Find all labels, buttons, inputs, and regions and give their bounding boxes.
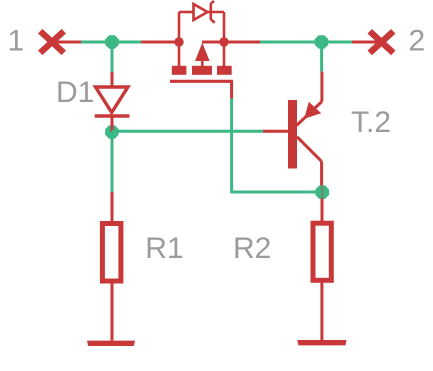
pin stub MOSFET left (drain) — [141, 41, 179, 44]
wire MOSFET to junction B — [260, 41, 352, 44]
junction node B (top right) — [315, 35, 329, 49]
diode D1 pin top — [111, 72, 114, 86]
diode D1 pin bottom — [111, 116, 114, 132]
junction node D red-through stripe — [321, 186, 324, 199]
svg-text:1: 1 — [8, 24, 25, 57]
svg-text:T.2: T.2 — [351, 106, 391, 139]
svg-text:R2: R2 — [233, 232, 271, 265]
wire base net horizontal — [112, 130, 263, 133]
transistor T.2 base pin — [263, 130, 288, 133]
transistor T.2 emitter diagonal — [297, 102, 322, 126]
MOSFET right leg to channel pad — [223, 42, 226, 67]
wire gate across to junction — [230, 191, 316, 194]
MOSFET bulk connection wire — [202, 41, 224, 44]
ground symbol right — [297, 340, 346, 345]
transistor T.2 emitter arrow — [304, 102, 321, 119]
resistor R2 body — [313, 223, 331, 280]
svg-text:2: 2 — [409, 25, 426, 58]
MOSFET right vertical down from body diode — [223, 12, 226, 42]
junction node C (D1 bottom) — [105, 125, 119, 139]
zener bottom hook — [211, 19, 215, 23]
MOSFET source dot — [219, 37, 228, 46]
MOSFET bulk arrow — [195, 43, 210, 61]
resistor R2 pin top — [321, 199, 324, 221]
MOSFET gate bar — [170, 80, 233, 83]
wire node1 to junction — [81, 41, 141, 44]
MOSFET left leg to channel pad — [178, 42, 181, 67]
resistor R1 pin top — [111, 192, 114, 221]
unconnected pin X at node 1 — [40, 31, 64, 53]
ground symbol left — [87, 341, 135, 346]
transistor T.2 emitter pin red — [320, 72, 323, 102]
body diode axis right segment — [207, 11, 224, 14]
resistor R2 pin bottom — [320, 280, 323, 340]
wire junction B down — [320, 42, 323, 72]
wire gate down — [230, 99, 233, 193]
diode D1 triangle — [96, 87, 128, 113]
diode D1 cathode bar — [95, 114, 130, 117]
junction node A (top left) — [105, 35, 119, 49]
MOSFET channel pad left — [172, 66, 187, 75]
wire junction C down to R1 — [111, 132, 114, 193]
MOSFET bulk stub — [201, 60, 204, 67]
zener top hook — [211, 1, 214, 4]
zener cathode bar — [210, 3, 213, 19]
wire junction A down to D1 — [111, 42, 114, 72]
transistor T.2 collector diagonal — [297, 137, 322, 162]
resistor R1 pin bottom — [111, 281, 114, 341]
body diode axis left segment — [179, 11, 194, 14]
zener body diode triangle — [194, 4, 208, 20]
svg-text:D1: D1 — [56, 76, 94, 109]
resistor R1 body — [102, 224, 121, 282]
transistor T.2 base bar — [288, 100, 297, 169]
transistor T.2 collector pin down — [320, 161, 323, 186]
unconnected pin X at node 2 — [370, 31, 394, 53]
MOSFET gate pin stub — [230, 81, 233, 98]
pin stub node 1 — [52, 41, 81, 44]
MOSFET channel pad middle — [192, 66, 212, 75]
pin stub MOSFET right to wire — [224, 41, 260, 44]
pin stub node 2 — [352, 41, 382, 44]
MOSFET left vertical up to body diode — [178, 12, 181, 42]
svg-text:R1: R1 — [145, 232, 183, 265]
MOSFET drain dot — [174, 37, 183, 46]
MOSFET channel pad right — [217, 66, 232, 75]
junction node D (collector/R2) — [315, 185, 329, 199]
